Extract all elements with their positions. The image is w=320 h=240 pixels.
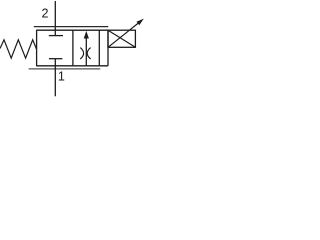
envelope right edge — [98, 30, 100, 66]
orifice left bracket — [80, 48, 83, 59]
solenoid diagonal — [108, 30, 135, 47]
envelope top edge — [36, 29, 108, 31]
blocked port T bottom — [49, 58, 62, 60]
lower parallel line (intermediate positions) — [29, 68, 101, 70]
adjust arrow shaft — [108, 23, 139, 47]
port 2 line — [54, 1, 56, 36]
envelope divider — [72, 30, 74, 66]
port 1 line — [54, 59, 56, 97]
adjust arrow head — [137, 19, 144, 26]
svg-text:1: 1 — [58, 69, 65, 83]
envelope bottom edge — [36, 65, 108, 67]
svg-text:2: 2 — [41, 7, 48, 21]
cartridge right vertical — [107, 30, 109, 66]
spring — [0, 40, 37, 58]
solenoid box — [108, 30, 135, 47]
flow arrow shaft — [85, 37, 87, 66]
upper parallel line (intermediate positions) — [34, 26, 109, 28]
envelope left edge — [36, 30, 38, 66]
flow arrow head — [84, 31, 89, 39]
orifice right bracket — [87, 48, 90, 59]
blocked port T top — [49, 35, 63, 37]
